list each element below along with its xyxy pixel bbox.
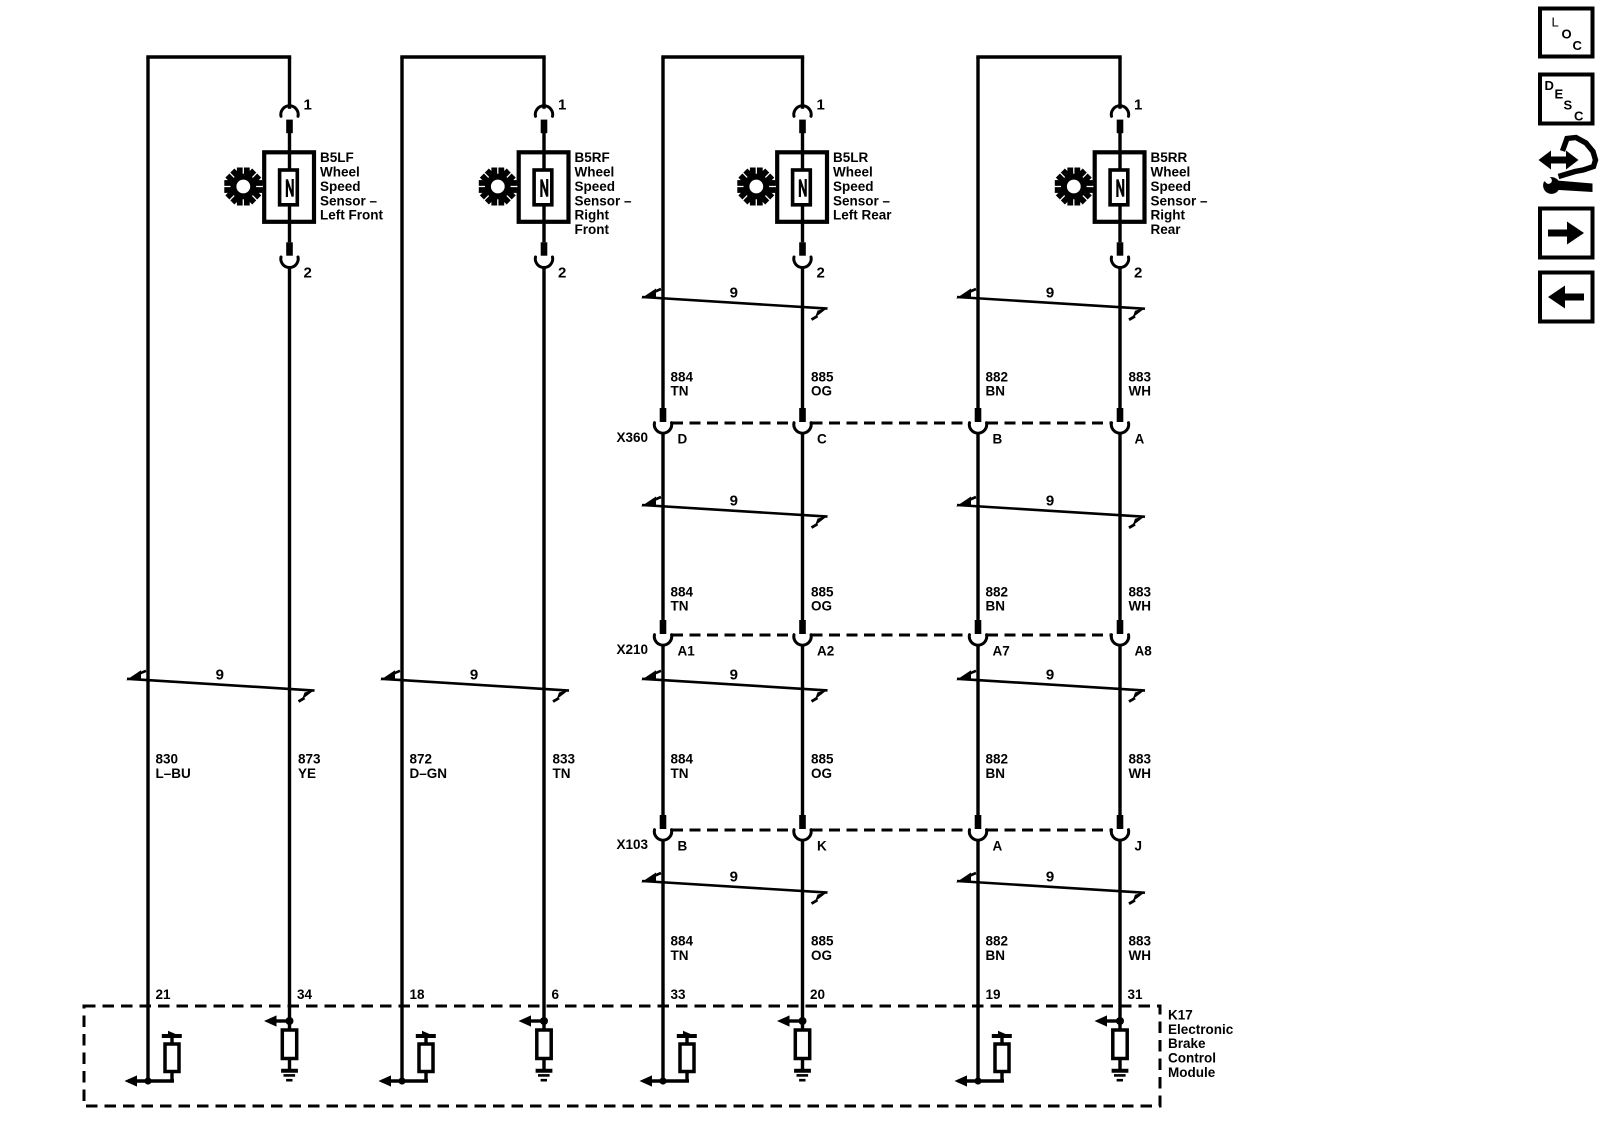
svg-text:Right: Right	[575, 208, 610, 223]
connector X210 terminal A7	[969, 620, 1009, 659]
twisted pair marker T3, B5LR circuit	[641, 670, 828, 701]
svg-text:Sensor –: Sensor –	[575, 193, 633, 208]
wire label 882 BN	[986, 934, 1009, 963]
svg-text:885: 885	[811, 584, 834, 599]
svg-text:884: 884	[671, 934, 694, 949]
wire: B5LF signal down to module	[288, 268, 291, 1031]
twisted pair marker T1, B5LR circuit	[641, 289, 828, 320]
svg-text:2: 2	[304, 265, 312, 282]
svg-text:Sensor –: Sensor –	[833, 193, 891, 208]
svg-text:9: 9	[1046, 869, 1054, 886]
svg-text:885: 885	[811, 752, 834, 767]
svg-text:830: 830	[156, 752, 179, 767]
svg-text:6: 6	[552, 987, 560, 1002]
svg-text:883: 883	[1129, 584, 1152, 599]
twisted pair marker T4, B5LR circuit	[641, 873, 828, 904]
sensor element inside B5RR	[1110, 152, 1128, 222]
connector pin 1 of B5RR	[1111, 97, 1142, 153]
svg-text:2: 2	[558, 265, 566, 282]
twisted pair marker T1, B5RR circuit	[956, 289, 1146, 320]
module internal: sense resistor + signal arrow at pin 21	[125, 1031, 182, 1087]
svg-text:33: 33	[671, 987, 687, 1002]
sensor element inside B5LF	[280, 152, 298, 222]
connector X360 terminal B	[969, 408, 1002, 447]
wire: top loop of B5RF circuit	[400, 57, 545, 1081]
svg-text:872: 872	[410, 752, 433, 767]
inline connector X360 dashed line	[672, 422, 1111, 425]
svg-text:9: 9	[216, 666, 224, 683]
svg-text:B: B	[993, 432, 1003, 447]
connector X103 terminal K	[794, 815, 827, 854]
svg-text:Left Front: Left Front	[320, 208, 383, 223]
svg-text:TN: TN	[671, 599, 689, 614]
svg-text:YE: YE	[298, 766, 316, 781]
svg-text:882: 882	[986, 934, 1009, 949]
svg-text:882: 882	[986, 752, 1009, 767]
svg-text:2: 2	[817, 265, 825, 282]
svg-text:9: 9	[1046, 285, 1054, 302]
connector X210 terminal A2	[794, 620, 834, 659]
wire label 883 WH	[1129, 752, 1152, 781]
module internal: bias resistor to ground at pin 31	[1095, 1015, 1129, 1080]
svg-text:E: E	[1555, 87, 1564, 102]
gear (reluctor wheel) icon of B5RF	[478, 167, 517, 206]
svg-text:B: B	[678, 839, 688, 854]
svg-text:2: 2	[1134, 265, 1142, 282]
svg-text:B5RR: B5RR	[1151, 150, 1188, 165]
twisted pair marker, B5LF circuit	[126, 670, 315, 701]
wire: B5RF signal down to module	[542, 268, 545, 1031]
svg-text:882: 882	[986, 584, 1009, 599]
gear (reluctor wheel) icon of B5RR	[1054, 167, 1093, 206]
svg-text:34: 34	[297, 987, 313, 1002]
wire label 833 TN	[553, 752, 576, 781]
connector pin 2 of B5RF	[535, 222, 566, 282]
svg-text:Front: Front	[575, 222, 610, 237]
module internal: sense resistor + signal arrow at pin 19	[955, 1031, 1012, 1087]
wire label 885 OG	[811, 934, 834, 963]
wire: top loop of B5RR circuit	[976, 57, 1121, 1081]
svg-text:BN: BN	[986, 599, 1006, 614]
wire label 883 WH	[1129, 934, 1152, 963]
svg-text:Wheel: Wheel	[833, 165, 873, 180]
svg-text:B5LR: B5LR	[833, 150, 869, 165]
svg-text:18: 18	[410, 987, 426, 1002]
svg-text:19: 19	[986, 987, 1001, 1002]
wheel speed sensor B5LR box	[777, 152, 827, 222]
module internal: sense resistor + signal arrow at pin 18	[379, 1031, 436, 1087]
label B5LR	[833, 150, 892, 222]
svg-text:Wheel: Wheel	[1151, 165, 1191, 180]
wire label 885 OG	[811, 369, 834, 398]
svg-text:WH: WH	[1129, 384, 1152, 399]
svg-text:Speed: Speed	[575, 179, 616, 194]
twisted pair marker T4, B5RR circuit	[956, 873, 1146, 904]
svg-text:Wheel: Wheel	[320, 165, 360, 180]
svg-text:Sensor –: Sensor –	[320, 193, 378, 208]
connector X103 terminal B	[654, 815, 687, 854]
svg-text:9: 9	[730, 493, 738, 510]
svg-text:885: 885	[811, 369, 834, 384]
wire label 884 TN	[671, 752, 694, 781]
connector X103 terminal J	[1111, 815, 1142, 854]
wire label 882 BN	[986, 584, 1009, 613]
svg-text:31: 31	[1128, 987, 1144, 1002]
connector pin 1 of B5LR	[794, 97, 825, 153]
svg-text:OG: OG	[811, 599, 832, 614]
svg-text:Rear: Rear	[1151, 222, 1182, 237]
svg-text:Wheel: Wheel	[575, 165, 615, 180]
svg-text:D: D	[678, 432, 688, 447]
label B5RR	[1151, 150, 1209, 237]
svg-text:884: 884	[671, 584, 694, 599]
wire: top loop of B5LF circuit	[146, 57, 291, 1081]
svg-text:833: 833	[553, 752, 576, 767]
wire: B5RR signal segments	[1118, 268, 1121, 1031]
svg-text:C: C	[1574, 109, 1584, 124]
connector X360 terminal D	[654, 408, 687, 447]
svg-text:TN: TN	[671, 766, 689, 781]
svg-text:C: C	[1573, 38, 1583, 53]
svg-text:Speed: Speed	[1151, 179, 1192, 194]
wire label 885 OG	[811, 584, 834, 613]
K17 Electronic Brake Control Module dashed box	[84, 1006, 1160, 1106]
svg-text:L–BU: L–BU	[156, 766, 191, 781]
wire label 884 TN	[671, 369, 694, 398]
label B5RF	[575, 150, 633, 237]
wire label 873 YE	[298, 752, 321, 781]
svg-text:A8: A8	[1135, 644, 1153, 659]
svg-text:TN: TN	[671, 948, 689, 963]
svg-text:OG: OG	[811, 766, 832, 781]
connector X210 terminal A1	[654, 620, 695, 659]
inline connector X103 dashed line	[672, 829, 1111, 832]
svg-text:Speed: Speed	[320, 179, 361, 194]
connector pin 2 of B5LF	[281, 222, 312, 282]
svg-text:9: 9	[1046, 493, 1054, 510]
connector pin 2 of B5LR	[794, 222, 825, 282]
svg-text:BN: BN	[986, 384, 1006, 399]
wire label 884 TN	[671, 584, 694, 613]
svg-text:9: 9	[1046, 666, 1054, 683]
connector X210 terminal A8	[1111, 620, 1152, 659]
svg-text:883: 883	[1129, 369, 1152, 384]
gear (reluctor wheel) icon of B5LF	[224, 167, 263, 206]
svg-text:D: D	[1545, 78, 1554, 93]
svg-text:A7: A7	[993, 644, 1010, 659]
connector X360 terminal A	[1111, 408, 1144, 447]
svg-text:9: 9	[730, 285, 738, 302]
connector pin 2 of B5RR	[1111, 222, 1142, 282]
svg-text:WH: WH	[1129, 948, 1152, 963]
svg-text:J: J	[1135, 839, 1143, 854]
sidebar button DESC	[1540, 75, 1593, 124]
connector pin 1 of B5LF	[281, 97, 312, 153]
sidebar button LOC	[1540, 9, 1593, 57]
svg-text:Brake: Brake	[1168, 1036, 1206, 1051]
svg-text:BN: BN	[986, 948, 1006, 963]
svg-text:9: 9	[730, 666, 738, 683]
svg-text:OG: OG	[811, 384, 832, 399]
twisted pair marker, B5RF circuit	[380, 670, 570, 701]
wire label 872 D–GN	[410, 752, 448, 781]
wire label 884 TN	[671, 934, 694, 963]
svg-text:1: 1	[558, 97, 566, 114]
svg-text:BN: BN	[986, 766, 1006, 781]
module internal: sense resistor + signal arrow at pin 33	[640, 1031, 697, 1087]
twisted pair marker T2, B5RR circuit	[956, 497, 1146, 528]
svg-text:885: 885	[811, 934, 834, 949]
connector X103 terminal A	[969, 815, 1002, 854]
module internal: bias resistor to ground at pin 6	[519, 1015, 553, 1080]
wire label 882 BN	[986, 369, 1009, 398]
svg-text:WH: WH	[1129, 599, 1152, 614]
svg-text:A: A	[1135, 432, 1145, 447]
svg-text:Module: Module	[1168, 1065, 1216, 1080]
gear (reluctor wheel) icon of B5LR	[737, 167, 776, 206]
svg-text:9: 9	[730, 869, 738, 886]
wire label 885 OG	[811, 752, 834, 781]
sidebar button next (right arrow)	[1540, 209, 1593, 258]
wire label 830 L–BU	[156, 752, 191, 781]
sensor element inside B5RF	[534, 152, 552, 222]
svg-text:O: O	[1562, 27, 1572, 42]
svg-text:X210: X210	[616, 642, 648, 657]
wheel speed sensor B5RF box	[519, 152, 569, 222]
wire label 883 WH	[1129, 369, 1152, 398]
svg-text:B5LF: B5LF	[320, 150, 354, 165]
svg-text:Left Rear: Left Rear	[833, 208, 892, 223]
wheel speed sensor B5LF box	[264, 152, 314, 222]
svg-text:883: 883	[1129, 934, 1152, 949]
svg-text:Sensor –: Sensor –	[1151, 193, 1209, 208]
svg-text:20: 20	[810, 987, 825, 1002]
twisted pair marker T2, B5LR circuit	[641, 497, 828, 528]
svg-text:A2: A2	[817, 644, 834, 659]
wire: B5LR signal segments	[801, 268, 804, 1031]
svg-text:873: 873	[298, 752, 321, 767]
svg-text:K: K	[817, 839, 827, 854]
svg-text:882: 882	[986, 369, 1009, 384]
twisted pair marker T3, B5RR circuit	[956, 670, 1146, 701]
svg-text:21: 21	[156, 987, 172, 1002]
svg-text:Speed: Speed	[833, 179, 874, 194]
wheel speed sensor B5RR box	[1095, 152, 1145, 222]
svg-text:1: 1	[1134, 97, 1142, 114]
svg-text:C: C	[817, 432, 827, 447]
svg-text:A1: A1	[678, 644, 696, 659]
svg-text:TN: TN	[553, 766, 571, 781]
connector pin 1 of B5RF	[535, 97, 566, 153]
module internal: bias resistor to ground at pin 34	[264, 1015, 298, 1080]
label B5LF	[320, 150, 383, 222]
svg-text:K17: K17	[1168, 1008, 1193, 1023]
svg-text:S: S	[1564, 98, 1573, 113]
wire label 882 BN	[986, 752, 1009, 781]
svg-text:A: A	[993, 839, 1003, 854]
wire: top loop of B5LR circuit	[661, 57, 804, 1081]
sensor element inside B5LR	[793, 152, 811, 222]
svg-text:WH: WH	[1129, 766, 1152, 781]
svg-text:L: L	[1552, 15, 1559, 30]
svg-text:Control: Control	[1168, 1051, 1216, 1066]
svg-text:1: 1	[817, 97, 825, 114]
svg-text:TN: TN	[671, 384, 689, 399]
svg-text:D–GN: D–GN	[410, 766, 448, 781]
svg-text:884: 884	[671, 369, 694, 384]
svg-text:X103: X103	[616, 837, 648, 852]
svg-text:9: 9	[470, 666, 478, 683]
svg-text:884: 884	[671, 752, 694, 767]
label K17 Electronic Brake Control Module	[1168, 1008, 1234, 1080]
svg-text:1: 1	[304, 97, 312, 114]
svg-text:Right: Right	[1151, 208, 1186, 223]
svg-text:OG: OG	[811, 948, 832, 963]
connector X360 terminal C	[794, 408, 827, 447]
sidebar button back (left arrow)	[1540, 273, 1593, 322]
sidebar icon: wire repair (arrows + wrench)	[1539, 138, 1596, 194]
wire label 883 WH	[1129, 584, 1152, 613]
svg-text:B5RF: B5RF	[575, 150, 610, 165]
inline connector X210 dashed line	[672, 634, 1111, 637]
svg-text:Electronic: Electronic	[1168, 1022, 1234, 1037]
svg-text:883: 883	[1129, 752, 1152, 767]
module internal: bias resistor to ground at pin 20	[777, 1015, 811, 1080]
svg-text:X360: X360	[616, 430, 648, 445]
